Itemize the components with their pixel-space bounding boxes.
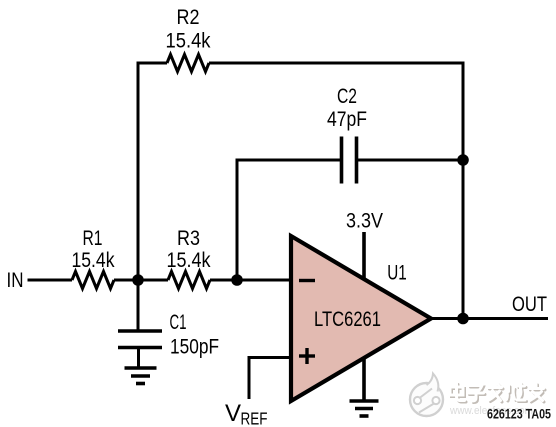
wire: right vertical (feedback/output bus) bbox=[462, 62, 465, 319]
watermark chinese text (drawn strokes, embossed) bbox=[450, 383, 545, 403]
wire: C2 branch vertical from R3 node bbox=[236, 160, 239, 280]
svg-text:15.4k: 15.4k bbox=[72, 249, 115, 272]
ground symbol (C1) bbox=[125, 368, 157, 384]
svg-text:C2: C2 bbox=[337, 85, 357, 108]
svg-text:3.3V: 3.3V bbox=[346, 210, 383, 233]
svg-text:150pF: 150pF bbox=[170, 336, 219, 359]
wire: C2 left lead bbox=[236, 159, 342, 162]
wire: left feedback vertical bbox=[137, 63, 140, 280]
svg-text:15.4k: 15.4k bbox=[166, 30, 211, 53]
resistor R3 bbox=[168, 272, 210, 289]
label VREF bbox=[225, 400, 268, 427]
svg-text:REF: REF bbox=[241, 409, 268, 427]
op-amp plus symbol bbox=[299, 348, 315, 364]
wire: op-amp to ground bbox=[362, 357, 366, 400]
resistor R1 bbox=[72, 272, 114, 289]
svg-text:R3: R3 bbox=[177, 227, 200, 250]
op-amp minus symbol bbox=[299, 279, 315, 282]
wire: C2 right lead bbox=[357, 159, 464, 162]
svg-text:OUT: OUT bbox=[512, 293, 547, 316]
capacitor C2 bbox=[342, 137, 357, 184]
wire: input line IN to op-amp inverting input bbox=[28, 279, 73, 282]
op-amp U1 triangle bbox=[291, 236, 431, 401]
wire: C1 vertical from R1/R3 node bbox=[137, 280, 140, 331]
wire: top feedback horizontal right of R2 bbox=[209, 62, 465, 65]
svg-text:U1: U1 bbox=[387, 262, 407, 285]
watermark logo circle (elecfans) bbox=[410, 374, 443, 417]
wire: R1 to R3 bbox=[114, 279, 168, 282]
junction node: output / right bus bbox=[457, 313, 469, 325]
svg-text:626123 TA05: 626123 TA05 bbox=[487, 407, 551, 422]
junction node: R3/C2 branch bbox=[231, 274, 243, 286]
wire: C1 to ground bbox=[137, 348, 140, 367]
svg-text:R1: R1 bbox=[83, 227, 103, 250]
resistor R2 bbox=[167, 55, 209, 72]
junction node: C2 right / right bus bbox=[457, 154, 469, 166]
wire: top feedback horizontal left of R2 bbox=[137, 62, 168, 65]
ground symbol (op-amp) bbox=[350, 401, 379, 416]
wire: non-inverting input to VREF bbox=[249, 358, 292, 400]
svg-text:R2: R2 bbox=[177, 6, 200, 29]
svg-text:C1: C1 bbox=[170, 311, 187, 334]
svg-text:15.4k: 15.4k bbox=[167, 249, 211, 272]
capacitor C1 bbox=[118, 331, 162, 348]
svg-text:IN: IN bbox=[7, 269, 24, 292]
svg-text:LTC6261: LTC6261 bbox=[314, 308, 381, 331]
wire: output bbox=[429, 317, 548, 320]
wire: R3 to op-amp bbox=[210, 279, 292, 282]
wire: 3.3V supply to op-amp bbox=[362, 232, 366, 278]
svg-text:47pF: 47pF bbox=[327, 108, 367, 131]
junction node: R1/R3/C1/feedback bbox=[132, 274, 144, 286]
svg-text:V: V bbox=[225, 400, 241, 427]
